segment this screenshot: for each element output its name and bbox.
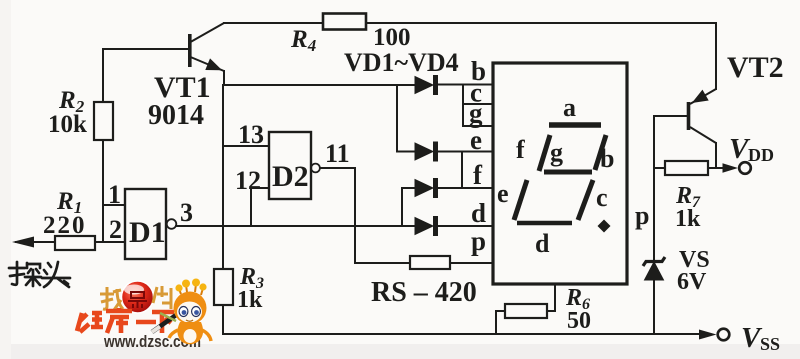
wire anode bus VD3-VD4 <box>401 188 403 226</box>
svg-text:1: 1 <box>108 180 121 209</box>
resistor R7 <box>665 161 708 175</box>
svg-text:d: d <box>535 229 550 258</box>
gate D1 <box>125 189 166 259</box>
resistor R1 <box>55 236 95 250</box>
svg-text:e: e <box>497 179 509 208</box>
svg-text:c: c <box>596 183 608 212</box>
head <box>174 292 207 325</box>
svg-text:DD: DD <box>748 145 774 165</box>
svg-text:3: 3 <box>180 198 193 227</box>
wire c stub <box>463 103 493 105</box>
svg-text:13: 13 <box>238 120 264 149</box>
mascot <box>152 279 211 345</box>
wire e-f bracket <box>461 152 463 189</box>
svg-text:b: b <box>600 144 614 173</box>
probe arrow <box>12 237 34 248</box>
svg-text:g: g <box>469 98 483 128</box>
resistor R6 <box>505 304 547 318</box>
wire d pin <box>438 225 493 227</box>
svg-text:1k: 1k <box>237 287 263 313</box>
segment e <box>514 180 527 220</box>
wire D1 pin1 stub <box>103 204 125 206</box>
watermark logo <box>77 279 211 352</box>
svg-text:D1: D1 <box>129 216 166 249</box>
wire D2 pin13 stub <box>223 145 269 147</box>
svg-text:10k: 10k <box>48 111 87 138</box>
wire R6 to bottom rail <box>496 311 505 334</box>
svg-text:2: 2 <box>109 215 122 244</box>
label 探头 (probe) hand-drawn <box>9 262 70 287</box>
segment c <box>578 180 593 220</box>
svg-text:f: f <box>473 160 483 190</box>
svg-text:12: 12 <box>235 166 261 195</box>
wire R7 left stub <box>654 167 665 169</box>
wire R1 / D1 pin2 line <box>16 241 125 243</box>
wire zener branch vertical <box>653 116 655 334</box>
svg-text:g: g <box>550 138 563 167</box>
svg-text:VT2: VT2 <box>727 51 784 84</box>
red circle logo <box>122 281 154 313</box>
wire emitter to VD1 <box>224 84 417 86</box>
wire D2 pin12 jog <box>251 188 269 226</box>
7-segment display box <box>493 63 627 284</box>
wire R7 to VDD terminal <box>708 167 733 169</box>
wire b pin <box>438 84 493 86</box>
VSS terminal <box>699 330 717 340</box>
segment b <box>595 135 606 170</box>
svg-text:220: 220 <box>43 212 87 239</box>
svg-text:a: a <box>563 93 576 122</box>
char 片 gold outline <box>153 286 171 309</box>
diode VD2 <box>415 142 438 161</box>
wire g stub <box>463 125 493 127</box>
维库一下 red text <box>77 308 174 333</box>
wire R3 to bottom rail <box>222 305 224 334</box>
svg-text:11: 11 <box>325 139 350 168</box>
wire R2 branch vertical <box>102 49 104 242</box>
segment f <box>539 135 550 171</box>
transistor VT1 <box>190 23 224 71</box>
wire VD2 anode stub <box>397 151 417 153</box>
face <box>177 302 202 323</box>
wire VT2 base <box>654 115 687 117</box>
svg-text:VD1~VD4: VD1~VD4 <box>344 48 459 77</box>
gate D2 <box>269 132 311 199</box>
svg-text:D2: D2 <box>272 160 309 193</box>
svg-text:9014: 9014 <box>148 100 204 131</box>
pen <box>152 308 186 332</box>
char 找 gold outline <box>100 287 123 310</box>
svg-text:1k: 1k <box>675 206 701 232</box>
wire VT1 base <box>103 48 188 50</box>
svg-text:p: p <box>471 226 486 256</box>
wire top rail <box>224 22 716 24</box>
body <box>177 322 203 344</box>
svg-text:RS – 420: RS – 420 <box>371 277 477 308</box>
wire c g bracket <box>462 85 464 127</box>
wire D2 pin11 to RS-420 <box>320 168 410 263</box>
svg-text:100: 100 <box>373 24 411 51</box>
segment d <box>517 221 572 226</box>
transistor VT2 <box>689 89 717 143</box>
resistor RS-420 <box>410 256 450 269</box>
svg-text:SS: SS <box>760 334 780 354</box>
svg-text:50: 50 <box>567 308 591 334</box>
wire VT2 collector drop to VDD line <box>715 143 717 168</box>
wire bottom rail <box>223 333 700 335</box>
antenna balls <box>179 284 203 295</box>
diode VD1 <box>415 76 438 95</box>
resistor R4 <box>323 14 366 30</box>
wire D1 output to diode bus <box>176 225 416 227</box>
svg-text:d: d <box>471 198 486 228</box>
segment a <box>549 122 601 128</box>
wire f pin <box>438 187 493 189</box>
wire e pin <box>438 151 493 153</box>
svg-text:e: e <box>470 125 482 155</box>
wire VT1 emitter drop <box>223 71 225 85</box>
segment g <box>544 170 592 175</box>
svg-text:f: f <box>516 135 525 164</box>
resistor R2 <box>94 102 113 140</box>
zener diode VS <box>643 257 665 280</box>
wire RS-420 to p pin <box>450 262 493 264</box>
wire display bottom pin <box>547 284 555 311</box>
svg-text:p: p <box>635 201 649 230</box>
wire VD3 anode stub <box>402 187 417 189</box>
wire emitter vertical to R3 <box>222 85 224 269</box>
VDD terminal <box>723 163 739 172</box>
wire top rail drop to VT2 <box>715 23 717 89</box>
diode VD4 <box>415 217 438 236</box>
decimal point <box>598 220 611 233</box>
diode VD3 <box>415 179 438 198</box>
resistor R3 <box>214 269 233 305</box>
wire anode bus VD1-VD2 <box>396 85 398 152</box>
svg-text:6V: 6V <box>677 269 707 295</box>
